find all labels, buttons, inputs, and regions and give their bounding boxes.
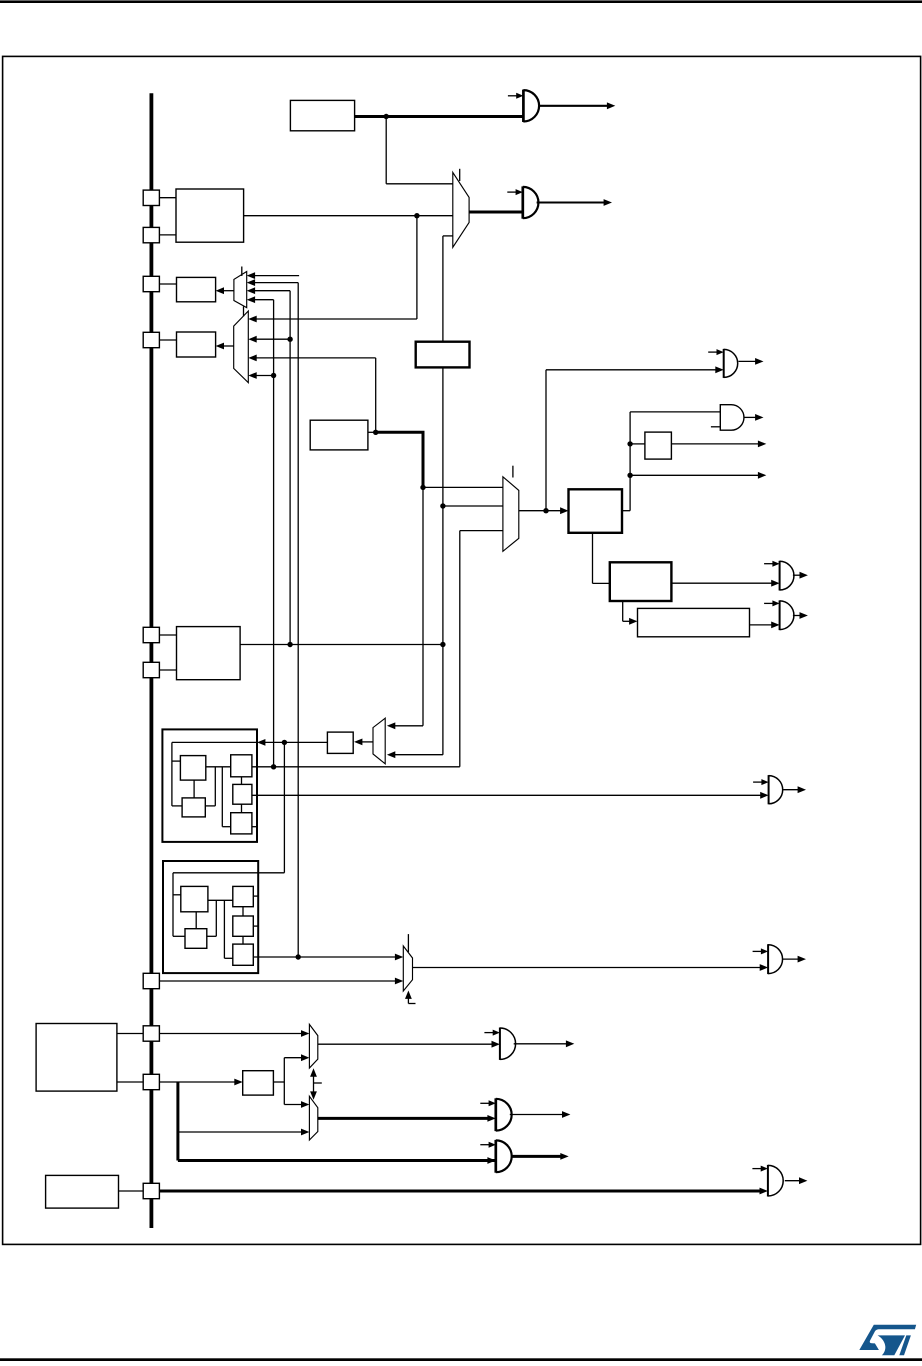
wire to mux3 input2 xyxy=(443,505,503,507)
pin square P7 xyxy=(143,973,159,988)
node PLL riser b xyxy=(627,473,632,478)
enable T1 xyxy=(708,349,724,355)
wire BL1 out b xyxy=(117,1081,143,1083)
wire to mux RTC input2 xyxy=(387,751,443,758)
wire pin to box S2 xyxy=(159,339,176,341)
wire mux B input4 xyxy=(248,372,273,379)
node HSI2 tap xyxy=(373,430,378,435)
wire bb1 stub B xyxy=(172,805,182,807)
select tick mux SW xyxy=(459,169,461,181)
wire PLL out xyxy=(622,510,630,512)
box HSI RC2 xyxy=(310,420,368,450)
node PLL entry xyxy=(420,485,425,490)
wire RTC down to box2 xyxy=(258,742,284,872)
node PLL riser a xyxy=(627,441,632,446)
wire bb1 B riser xyxy=(205,767,215,806)
wire PLL down xyxy=(593,533,610,584)
output arrow via box ST xyxy=(671,441,766,448)
enable G6 xyxy=(480,1100,496,1106)
wire HSE down xyxy=(416,216,418,319)
output arrow G2 xyxy=(537,199,612,206)
box bb2 E xyxy=(233,944,254,965)
select tick mux M4 top xyxy=(407,934,409,952)
node LSE Vb end xyxy=(287,642,292,647)
pin square OSC1a xyxy=(143,190,159,205)
enable G7 xyxy=(480,1142,496,1148)
wire BL1 out a xyxy=(117,1033,143,1035)
select tick mux B xyxy=(243,307,245,317)
bus line (vertical) xyxy=(149,93,153,1228)
box S3 xyxy=(327,732,353,753)
clock gate GF xyxy=(768,1165,783,1197)
clock gate G3 xyxy=(780,561,794,591)
output arrow G6 xyxy=(510,1111,571,1118)
wire thick mux SW out to gate G2 xyxy=(469,211,523,214)
output arrow G4 xyxy=(793,612,808,619)
box bb2 B xyxy=(185,929,207,949)
pin square P8 xyxy=(143,1026,159,1041)
clock gate G7 xyxy=(496,1140,512,1173)
box divider D128 xyxy=(416,342,470,368)
mux P xyxy=(309,1024,317,1068)
box S2 xyxy=(177,332,216,357)
box bb1 A xyxy=(180,756,205,781)
output arrow G7 xyxy=(512,1153,569,1160)
box bb1 B xyxy=(182,798,205,817)
clock gate T1 xyxy=(724,349,738,378)
stub mux A input1 xyxy=(247,272,299,279)
wire USB down xyxy=(623,601,638,625)
mux M3 xyxy=(503,477,519,552)
wire mux A input3 xyxy=(247,287,290,294)
wire mux A input4 xyxy=(247,296,274,303)
box bb1 C xyxy=(231,755,252,777)
wire bb1 C-D xyxy=(241,777,243,785)
box USB presc xyxy=(610,562,672,601)
page bottom rule xyxy=(0,1358,922,1361)
box BL2 xyxy=(46,1175,119,1208)
clock gate G5 xyxy=(500,1028,516,1060)
wire SB bracket xyxy=(273,1058,284,1105)
wire bb2 entry xyxy=(173,873,258,937)
box backup2 xyxy=(163,861,258,973)
enable G1 xyxy=(508,93,524,99)
node mux3 out xyxy=(543,508,548,513)
pin square P5 xyxy=(143,627,159,642)
select muxPQ xyxy=(310,1068,322,1100)
wire HSI down to mux SW xyxy=(386,117,453,184)
wire bb2 E drop xyxy=(224,900,232,958)
output arrow G5 xyxy=(514,1040,575,1047)
output arrow T2 xyxy=(744,414,764,421)
wire bb1 E drop xyxy=(222,767,230,827)
wire down to mux RTC input1 xyxy=(387,487,423,729)
wire mux4 out to gate GB xyxy=(413,964,769,971)
wire to muxP input1 xyxy=(159,1030,309,1037)
and gate T2 xyxy=(720,405,744,431)
clock gate G6 xyxy=(496,1098,512,1131)
wire thick PLL entry xyxy=(376,432,425,487)
box bb2 D xyxy=(233,916,254,936)
box HSE OSC xyxy=(176,189,244,242)
arrow into PLL box xyxy=(546,507,569,514)
wire PLL riser xyxy=(629,412,631,511)
wire pin to mux4 input2 xyxy=(159,978,403,985)
box wide xyxy=(638,608,750,636)
box BL1 xyxy=(36,1024,117,1092)
enable G2 xyxy=(507,189,523,195)
output arrow T1 xyxy=(739,358,764,365)
wire bb1 stub A xyxy=(172,760,181,762)
wire to mux3 input1 xyxy=(423,486,503,488)
wire wide out to gate G4 xyxy=(750,622,780,629)
wire thick muxQ out to gate G6 xyxy=(318,1115,496,1122)
box PLL xyxy=(569,489,623,533)
enable GA xyxy=(753,779,769,785)
ST logo xyxy=(859,1325,916,1356)
wire bb2 C stub xyxy=(253,895,258,897)
wire pin to LSE a xyxy=(159,634,176,636)
mux A xyxy=(234,272,247,308)
select tick mux A xyxy=(241,267,243,277)
box bb2 C xyxy=(233,886,254,906)
box top (HSI RC) xyxy=(290,100,354,130)
wire bb2 stub B xyxy=(173,935,185,937)
node V_a muxB in4 xyxy=(271,373,276,378)
wire riser 767 to mux3 input3 xyxy=(460,531,503,767)
wire bb2 D-E xyxy=(242,936,244,944)
node RTC branch xyxy=(282,740,287,745)
wire mux SW input3 step xyxy=(443,235,453,237)
enable dash T2 xyxy=(711,426,720,428)
select mux M4 bottom xyxy=(405,991,416,1004)
box S1 xyxy=(177,277,216,301)
mux RTC xyxy=(373,718,385,764)
box bb2 A xyxy=(181,886,208,911)
output arrow G1 xyxy=(538,102,615,109)
wire bb1 E stub xyxy=(252,826,257,828)
wire mux SW input3 riser xyxy=(442,236,444,342)
wire bb2 C-D xyxy=(242,907,244,916)
output arrow G3 xyxy=(793,572,808,579)
mux Q xyxy=(309,1096,317,1140)
clock gate G2 xyxy=(523,186,539,218)
wire mux A input2 xyxy=(247,279,299,286)
node HSI tap xyxy=(384,114,389,119)
node HSE tap xyxy=(414,213,419,218)
mux B xyxy=(234,311,249,383)
node V_b muxB in2 xyxy=(287,337,292,342)
wire bb2 D stub xyxy=(253,925,258,927)
wire divider down xyxy=(442,367,444,754)
wire pin to HSE box a xyxy=(159,197,176,199)
wire HSE to mux SW xyxy=(244,215,453,217)
clock gate GB xyxy=(768,944,782,974)
wire to box ST xyxy=(630,443,645,445)
wire bb1 entry xyxy=(172,742,257,806)
wire V_c (muxA in2 down) xyxy=(297,283,299,957)
wire riser to mux B input3 xyxy=(375,358,377,432)
enable GB xyxy=(753,948,769,954)
wire mux B input2 xyxy=(248,336,290,343)
enable G3 xyxy=(764,561,780,567)
wire BL2 out xyxy=(119,1190,144,1192)
box ST small xyxy=(645,432,672,459)
wire mux3 out xyxy=(519,510,546,512)
enable GF xyxy=(752,1166,768,1172)
pin square P3 xyxy=(143,276,159,291)
node divider to mux3 xyxy=(440,503,445,508)
wire thick HSI to gate G1 xyxy=(355,115,524,118)
wire pin to HSE box b xyxy=(159,234,176,236)
wire USB out to gate G3 xyxy=(671,580,779,587)
wire PLL to gate T2 xyxy=(630,411,720,413)
node 767 Va end xyxy=(271,764,276,769)
pin square P4 xyxy=(143,332,159,347)
wire bracket to muxP input2 xyxy=(284,1054,309,1061)
pin square P9 xyxy=(143,1074,159,1089)
wire HSE to mux B input1 xyxy=(248,316,417,323)
wire 767 net xyxy=(252,766,460,768)
page top rule xyxy=(0,0,922,3)
clock gate G1 xyxy=(523,90,539,122)
output arrow mux B to S2 xyxy=(216,343,234,350)
wire bb2 A-B xyxy=(195,912,197,929)
select tick mux M3 xyxy=(512,466,514,478)
pin square P6 xyxy=(143,662,159,677)
wire to box SB xyxy=(159,1079,242,1086)
node LSE join xyxy=(440,642,445,647)
wire thick to final gate xyxy=(159,1188,768,1195)
output arrow mux RTC xyxy=(354,739,373,746)
wire LSE out xyxy=(240,644,443,646)
box bb1 E xyxy=(231,813,252,834)
wire SYSCLK riser to gate T1 xyxy=(546,366,724,510)
wire V_a (muxA in4 down) xyxy=(273,300,275,767)
mux M4 xyxy=(403,946,412,991)
wire mux B input3 xyxy=(248,355,375,362)
output arrow GF xyxy=(785,1177,808,1184)
wire bb2 B riser xyxy=(207,900,217,936)
wire bb2 stub A xyxy=(173,894,181,896)
wire D out long to gate A xyxy=(252,792,769,799)
output arrow GB xyxy=(783,956,806,963)
wire HSI2 out xyxy=(368,431,376,433)
wire bb1 A-C xyxy=(206,766,231,768)
box SB xyxy=(243,1071,274,1095)
wire E2 out to mux4 xyxy=(253,954,403,961)
wire bracket to muxQ input1 xyxy=(284,1101,309,1108)
wire V_b (muxA in3 down) xyxy=(289,291,291,645)
wire bb1 A-B xyxy=(193,780,195,798)
clock gate GA xyxy=(769,775,783,804)
output arrow PLL direct xyxy=(630,472,766,479)
wire pin to box S1 xyxy=(159,283,176,285)
clock gate G4 xyxy=(780,600,794,630)
box backup1 xyxy=(162,729,257,842)
wire muxP out to gate G5 xyxy=(318,1041,500,1048)
enable G4 xyxy=(764,600,780,606)
mux SW xyxy=(453,172,469,247)
enable G5 xyxy=(484,1030,500,1036)
wire bb1 D-E xyxy=(241,804,243,813)
wire LSI to muxQ input2 xyxy=(178,1129,310,1136)
box bb1 D xyxy=(233,784,252,804)
wire RTC to backup box xyxy=(257,739,327,746)
wire bb2 A-C xyxy=(208,899,233,901)
output arrow GA xyxy=(783,786,806,793)
pin square P10 xyxy=(143,1183,159,1198)
wire pin to LSE b xyxy=(159,669,176,671)
wire thick LSI drop xyxy=(178,1082,496,1164)
pin square OSC1b xyxy=(143,227,159,242)
output arrow mux A to S1 xyxy=(216,287,234,294)
node E2 Vc end xyxy=(296,954,301,959)
box LSE OSC xyxy=(177,627,241,680)
